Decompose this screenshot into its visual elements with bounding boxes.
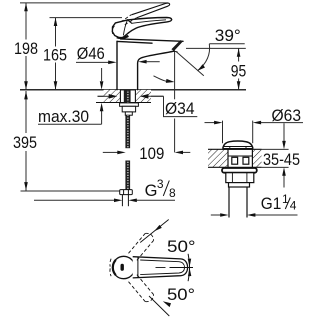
svg-text:Ø46: Ø46 — [77, 45, 105, 63]
svg-text:165: 165 — [43, 46, 67, 64]
svg-text:35-45: 35-45 — [263, 151, 300, 169]
svg-text:3: 3 — [157, 177, 164, 191]
svg-text:109: 109 — [139, 145, 164, 163]
svg-text:198: 198 — [14, 40, 38, 58]
svg-text:Ø63: Ø63 — [272, 107, 302, 125]
svg-text:G: G — [145, 182, 158, 200]
svg-text:50°: 50° — [167, 238, 196, 256]
svg-text:39°: 39° — [215, 27, 241, 45]
svg-text:Ø34: Ø34 — [165, 100, 195, 118]
svg-text:8: 8 — [169, 186, 176, 200]
svg-text:95: 95 — [231, 62, 247, 80]
svg-text:4: 4 — [290, 198, 297, 212]
svg-text:395: 395 — [13, 134, 37, 152]
svg-text:G1: G1 — [261, 195, 282, 213]
svg-text:max.30: max.30 — [38, 108, 89, 126]
svg-text:50°: 50° — [167, 286, 195, 304]
